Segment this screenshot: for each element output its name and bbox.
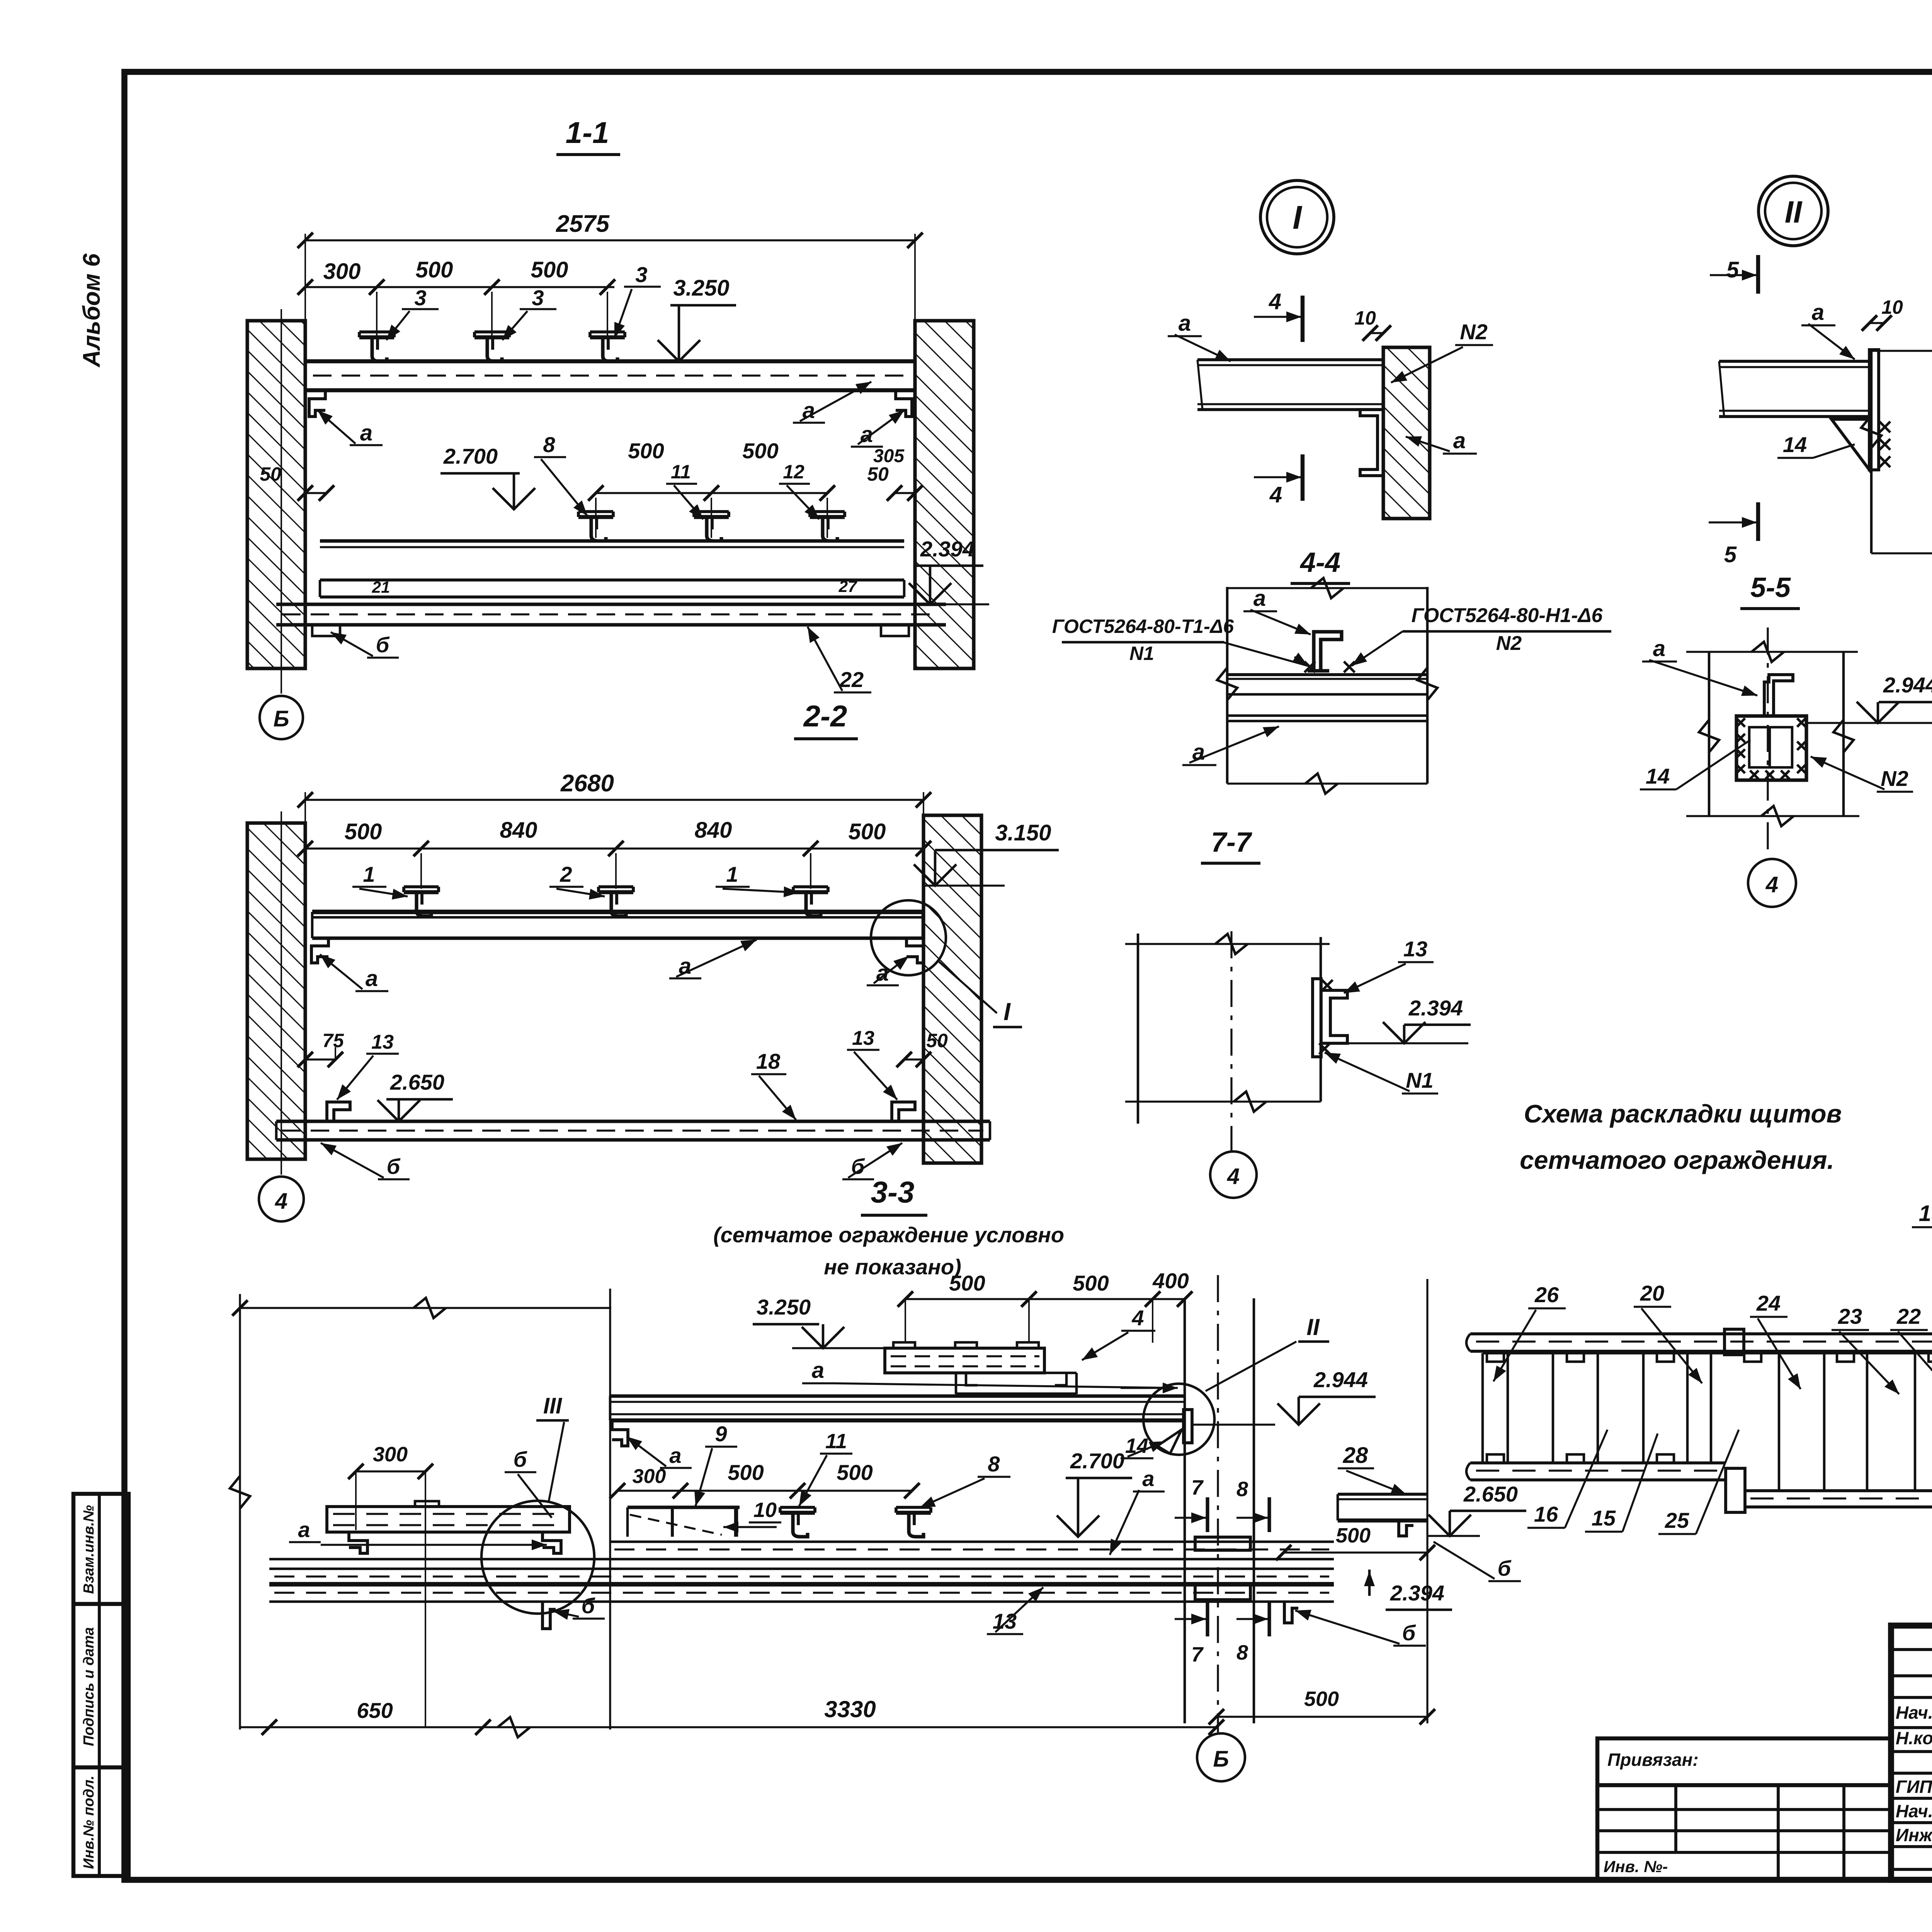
svg-text:7: 7 [1191, 1476, 1204, 1499]
svg-text:300: 300 [373, 1443, 408, 1466]
z-clip lower right [892, 1102, 915, 1121]
wall axis right (3-3) [1426, 1279, 1428, 1723]
left margin stamp table [73, 1494, 129, 1876]
slab lines (4-4) [1227, 673, 1427, 676]
svg-text:15: 15 [1592, 1506, 1616, 1530]
z-clip inside circle III [543, 1532, 561, 1553]
bracket under beam right 2-2 [906, 938, 923, 963]
svg-text:2.394: 2.394 [920, 537, 975, 561]
wall (detail I) [1383, 347, 1430, 519]
svg-text:2.394: 2.394 [1408, 996, 1463, 1020]
svg-text:Инв.№ подл.: Инв.№ подл. [81, 1776, 97, 1869]
svg-text:(сетчатое ограждение условно: (сетчатое ограждение условно [713, 1223, 1064, 1247]
svg-text:3: 3 [414, 286, 426, 310]
top beam 2-2 [312, 910, 923, 914]
dim extension lines top row [376, 292, 378, 335]
svg-text:б: б [1402, 1621, 1416, 1645]
axis left wall 2-2 [281, 811, 282, 1175]
svg-text:4: 4 [1269, 482, 1282, 507]
svg-text:2: 2 [560, 862, 572, 886]
svg-text:2.394: 2.394 [1390, 1581, 1444, 1605]
plate 28 [1338, 1493, 1427, 1496]
axis circle B (3-3) [1197, 1733, 1245, 1781]
svg-text:N1: N1 [1129, 643, 1154, 664]
svg-text:3330: 3330 [824, 1696, 876, 1722]
svg-text:II: II [1785, 195, 1803, 229]
svg-text:50: 50 [260, 463, 281, 485]
svg-text:a: a [1253, 586, 1266, 611]
svg-text:a: a [1812, 300, 1824, 325]
dim extension lines 2-2 [420, 853, 422, 889]
svg-text:500: 500 [849, 819, 886, 844]
wall face vertical (II) [1870, 350, 1873, 553]
svg-text:2.944: 2.944 [1883, 673, 1932, 697]
svg-text:б: б [387, 1154, 401, 1179]
upper slab at 3.250 [885, 1348, 1044, 1373]
svg-text:III: III [543, 1393, 563, 1418]
leader I [938, 961, 997, 1013]
svg-text:20: 20 [1640, 1281, 1664, 1305]
svg-text:13: 13 [852, 1027, 874, 1049]
svg-text:14: 14 [1125, 1434, 1148, 1458]
bracket under beam left 2-2 [311, 938, 328, 963]
svg-text:3-3: 3-3 [871, 1175, 915, 1209]
svg-text:75: 75 [322, 1030, 344, 1051]
svg-text:б: б [1498, 1556, 1512, 1580]
svg-text:18: 18 [756, 1049, 781, 1073]
svg-text:Альбом 6: Альбом 6 [78, 253, 105, 368]
svg-text:4: 4 [1765, 872, 1778, 897]
right vertical 5-5 [1842, 652, 1845, 816]
svg-text:50: 50 [867, 463, 889, 485]
svg-text:Инв. №-: Инв. №- [1604, 1857, 1668, 1876]
bottom slab [276, 602, 946, 606]
axis circle B [260, 696, 303, 739]
rail clips lower row [578, 515, 613, 519]
svg-text:28: 28 [1343, 1443, 1368, 1468]
left b-plate slab [327, 1507, 570, 1532]
boundary verticals 4-4 [1226, 587, 1229, 784]
beam (detail I) [1197, 358, 1383, 361]
horizontal panels row [1481, 1353, 1484, 1463]
svg-text:13: 13 [993, 1609, 1017, 1633]
wall left hatched [247, 321, 305, 668]
svg-text:ГОСТ5264-80-Н1-Δ6: ГОСТ5264-80-Н1-Δ6 [1412, 604, 1603, 627]
dim row 300/500/500 [305, 286, 614, 288]
dim 500/500 row2 [596, 492, 827, 494]
svg-text:7-7: 7-7 [1211, 827, 1252, 858]
svg-text:5-5: 5-5 [1750, 572, 1791, 603]
bottom slab 2-2 [276, 1119, 990, 1123]
svg-text:12: 12 [783, 461, 804, 483]
svg-text:650: 650 [357, 1698, 393, 1723]
svg-text:1: 1 [726, 862, 738, 886]
signature table rows [1891, 1648, 1932, 1651]
svg-text:Н.контр: Н.контр [1896, 1728, 1932, 1748]
svg-text:7: 7 [1191, 1643, 1204, 1666]
svg-text:400: 400 [1152, 1269, 1189, 1293]
svg-text:a: a [366, 966, 378, 991]
svg-text:N1: N1 [1406, 1068, 1434, 1092]
svg-text:не показано): не показано) [824, 1255, 961, 1279]
svg-text:8: 8 [1236, 1478, 1248, 1501]
gusset 14 (II) [1832, 419, 1869, 470]
cap plate on slab [415, 1501, 439, 1507]
svg-text:a: a [360, 420, 372, 446]
svg-text:500: 500 [628, 439, 664, 463]
svg-text:б: б [376, 633, 390, 657]
top beam [305, 359, 915, 363]
svg-text:ГИПстр: ГИПстр [1896, 1777, 1932, 1797]
small clips on slab [893, 1342, 915, 1348]
svg-text:26: 26 [1534, 1282, 1559, 1307]
svg-text:Нач.отд: Нач.отд [1896, 1702, 1932, 1723]
rail connector box [1725, 1329, 1744, 1355]
I-clip 11 (3-3) [780, 1511, 815, 1515]
svg-text:16: 16 [1534, 1502, 1558, 1526]
svg-text:8: 8 [988, 1452, 1000, 1476]
svg-text:25: 25 [1665, 1508, 1689, 1532]
dim 2680 [304, 792, 306, 916]
svg-text:500: 500 [531, 257, 568, 282]
svg-text:500: 500 [728, 1460, 764, 1485]
svg-text:14: 14 [1646, 764, 1670, 788]
axis circle 4 [259, 1177, 304, 1221]
bracket under beam left [309, 390, 325, 417]
bottom line 7-7 [1125, 1100, 1321, 1102]
under plate [956, 1372, 1077, 1374]
bottom rail level2 [1745, 1489, 1932, 1492]
bottom horizontal grid (II) [1871, 552, 1932, 554]
I-clip 8 (3-3) [896, 1511, 931, 1515]
bottom line 5-5 [1686, 815, 1859, 817]
svg-text:a: a [298, 1517, 310, 1542]
svg-text:2-2: 2-2 [803, 699, 847, 733]
svg-text:10: 10 [1881, 296, 1903, 318]
svg-text:Взам.инв.№: Взам.инв.№ [81, 1505, 97, 1594]
svg-text:11: 11 [825, 1430, 847, 1453]
svg-text:23: 23 [1838, 1304, 1862, 1328]
clip under beam left end [612, 1420, 628, 1446]
svg-text:21: 21 [372, 578, 390, 596]
detail I circle [1260, 180, 1334, 254]
beam (II) [1719, 360, 1869, 363]
z-clip (4-4) [1314, 632, 1342, 671]
svg-text:3.250: 3.250 [757, 1295, 811, 1319]
svg-text:I: I [1293, 199, 1303, 236]
svg-text:4: 4 [1227, 1164, 1240, 1189]
svg-text:10: 10 [1354, 307, 1376, 329]
svg-text:2.700: 2.700 [1070, 1449, 1124, 1473]
svg-text:50: 50 [926, 1030, 948, 1051]
wall right hatched [915, 321, 974, 668]
dim 300/500/500 (3-3) [617, 1490, 912, 1492]
svg-text:1-1: 1-1 [566, 116, 609, 150]
svg-text:a: a [669, 1443, 681, 1468]
upper beam 2.944 [610, 1394, 1184, 1398]
svg-text:2.944: 2.944 [1313, 1367, 1368, 1392]
svg-text:27: 27 [838, 577, 857, 595]
top horizontal grid (II) [1871, 350, 1932, 352]
svg-text:8: 8 [1236, 1641, 1248, 1664]
top boundary 4-4 [1227, 587, 1427, 589]
right vertical 7-7 [1320, 937, 1322, 1102]
svg-text:22: 22 [839, 667, 864, 692]
svg-text:500: 500 [345, 819, 382, 844]
hook below circle III [543, 1602, 556, 1629]
box with welds (5-5) [1736, 716, 1806, 780]
middle beam thin band [320, 539, 904, 543]
end plate (II) [1869, 350, 1879, 470]
bracket 14 angled [1157, 1430, 1182, 1454]
detail circle I [871, 900, 946, 975]
horizontal top rail [1470, 1332, 1932, 1335]
left vertical 5-5 [1708, 652, 1711, 816]
right column verticals [1184, 1298, 1186, 1723]
svg-text:a: a [1653, 636, 1665, 661]
detail circle III (3-3) [481, 1501, 594, 1614]
svg-text:13: 13 [1403, 937, 1427, 961]
svg-text:8: 8 [543, 432, 555, 457]
svg-text:Нач.гр.: Нач.гр. [1896, 1801, 1932, 1821]
svg-text:4: 4 [275, 1189, 287, 1214]
svg-text:1: 1 [363, 862, 375, 886]
svg-text:300: 300 [633, 1465, 666, 1488]
svg-text:Инж,1к: Инж,1к [1896, 1825, 1932, 1845]
dim set 500/500/400 [905, 1298, 1185, 1300]
svg-text:10: 10 [753, 1498, 777, 1522]
left vertical 7-7 [1137, 934, 1139, 1124]
svg-text:3.150: 3.150 [995, 820, 1051, 845]
svg-text:a: a [1142, 1466, 1154, 1491]
detail II circle [1759, 176, 1828, 246]
svg-text:14: 14 [1783, 432, 1807, 457]
svg-text:ГОСТ5264-80-Т1-Δ6: ГОСТ5264-80-Т1-Δ6 [1052, 616, 1234, 637]
top long dim line [240, 1307, 611, 1309]
svg-text:N2: N2 [1881, 766, 1908, 791]
axis circle 4 (5-5) [1748, 859, 1796, 907]
svg-text:22: 22 [1896, 1304, 1921, 1328]
rail clips 2-2 [404, 890, 439, 894]
svg-text:б: б [582, 1594, 595, 1618]
svg-text:300: 300 [323, 259, 361, 284]
svg-text:Подпись и дата: Подпись и дата [81, 1627, 97, 1746]
svg-text:2680: 2680 [560, 770, 614, 797]
axis circle 4 (7-7) [1210, 1151, 1257, 1198]
wall left hatched 2-2 [247, 823, 305, 1159]
axis 5-5 [1767, 628, 1769, 857]
svg-text:N2: N2 [1496, 632, 1522, 655]
detail circle II (3-3) [1143, 1384, 1214, 1455]
svg-text:500: 500 [949, 1271, 985, 1295]
svg-text:сетчатого ограждения.: сетчатого ограждения. [1520, 1146, 1834, 1174]
svg-text:a: a [1179, 311, 1191, 336]
svg-text:Привязан:: Привязан: [1607, 1750, 1699, 1770]
axis 7-7 [1230, 931, 1232, 1151]
support axis mid [609, 1289, 611, 1730]
dim 2575 [304, 234, 306, 361]
weld marks (4-4) [1304, 662, 1315, 672]
svg-text:500: 500 [837, 1460, 872, 1485]
svg-text:б: б [514, 1447, 527, 1471]
clip under deck right [1284, 1602, 1298, 1623]
column pass plates [1195, 1537, 1250, 1550]
corridor deck lines [610, 1541, 1334, 1543]
lower channel band [320, 578, 904, 582]
svg-text:2.650: 2.650 [390, 1070, 444, 1094]
svg-text:3: 3 [635, 262, 647, 287]
wall right hatched 2-2 [923, 815, 981, 1163]
svg-text:4: 4 [1131, 1306, 1144, 1330]
svg-text:24: 24 [1756, 1291, 1781, 1315]
rail clips top row [359, 335, 394, 339]
bottom boundary 4-4 [1227, 782, 1427, 784]
z-clip lower left [327, 1102, 350, 1121]
svg-text:Б: Б [1213, 1747, 1229, 1772]
svg-text:4-4: 4-4 [1299, 547, 1340, 578]
svg-text:3.250: 3.250 [673, 276, 729, 301]
svg-text:a: a [812, 1358, 824, 1383]
svg-text:2575: 2575 [556, 211, 610, 237]
svg-text:Б: Б [273, 706, 289, 731]
dim row 500/840/840/500 [305, 847, 923, 849]
svg-text:500: 500 [1304, 1687, 1339, 1711]
title block outer [1891, 1626, 1932, 1880]
top line 5-5 [1686, 651, 1858, 653]
svg-text:Схема раскладки щитов: Схема раскладки щитов [1524, 1099, 1842, 1128]
z-assembly 9 [628, 1505, 740, 1509]
svg-text:500: 500 [1336, 1524, 1371, 1547]
svg-text:a: a [1453, 428, 1466, 453]
rail jog box [1726, 1468, 1745, 1512]
bracket under beam (detail I) [1360, 410, 1383, 476]
svg-text:I: I [1003, 998, 1011, 1026]
svg-text:2.700: 2.700 [443, 444, 498, 468]
left dim boundary [239, 1294, 241, 1730]
svg-text:9: 9 [715, 1422, 727, 1446]
bottom dim 650/3330 [240, 1726, 1216, 1728]
bracket under beam right [896, 390, 912, 417]
z-clip on box (5-5) [1764, 675, 1793, 716]
svg-text:3: 3 [532, 286, 544, 310]
svg-text:5: 5 [1724, 542, 1737, 567]
svg-text:840: 840 [695, 818, 732, 843]
beam end plate right [1184, 1410, 1192, 1443]
channel 13 (7-7) [1313, 979, 1321, 1057]
svg-text:11: 11 [671, 461, 691, 483]
weld marks (II) [1879, 422, 1890, 432]
dim extension lines lower row [595, 498, 597, 538]
clip under left end [349, 1532, 367, 1553]
svg-text:500: 500 [1073, 1271, 1109, 1295]
svg-text:N2: N2 [1460, 320, 1488, 344]
privyazan table [1597, 1738, 1891, 1880]
hook under plate 28 [1399, 1520, 1413, 1536]
svg-text:19: 19 [1919, 1201, 1932, 1226]
svg-text:II: II [1306, 1314, 1320, 1340]
svg-text:840: 840 [500, 818, 537, 843]
svg-text:4: 4 [1269, 289, 1281, 314]
svg-text:13: 13 [371, 1031, 394, 1053]
axis line left wall [281, 309, 282, 694]
top line 7-7 [1125, 943, 1330, 945]
foot pad right [881, 625, 909, 636]
svg-text:500: 500 [416, 257, 453, 282]
foot pad left [312, 625, 340, 636]
bottom rail level1 [1470, 1461, 1726, 1464]
svg-text:5: 5 [1726, 257, 1739, 282]
svg-text:2.650: 2.650 [1463, 1482, 1518, 1506]
svg-text:500: 500 [742, 439, 778, 463]
